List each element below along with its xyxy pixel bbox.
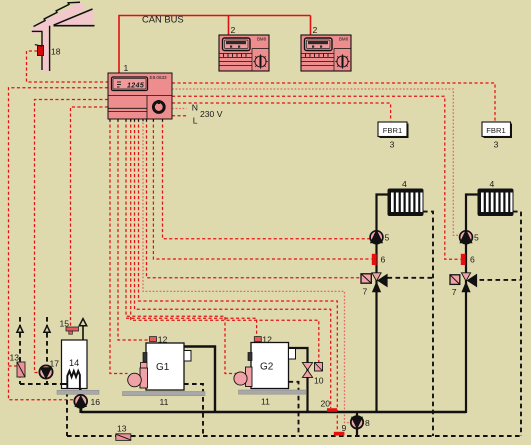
pump 16 [74, 395, 87, 408]
svg-text:7: 7 [363, 287, 368, 297]
controller U1 (E8 device) [108, 73, 172, 121]
wire controller to G2 sensor 12 [126, 318, 257, 336]
svg-text:5: 5 [385, 233, 390, 243]
arrow tank vent [79, 319, 86, 326]
wire tank to return main (dashed) [66, 392, 68, 436]
wire left circuit supply pipe [377, 195, 389, 413]
tank 14 [62, 340, 88, 390]
wire L stub 230V [172, 115, 189, 117]
wire right circuit supply pipe [466, 195, 478, 414]
sensor 6 left [372, 254, 377, 265]
valve 7 right (mixer) [450, 273, 477, 293]
wire stub to sensor 13 left [9, 365, 18, 367]
wire controller to sensor 20 [135, 119, 331, 408]
wire pump 16 pipe [79, 389, 81, 413]
wire controller to pump 5 right (fine dotted) [172, 89, 459, 235]
wire tank vent pipe [82, 325, 84, 340]
wire controller to G1 sensor 12 [118, 119, 149, 340]
wire controller to mixer valves 7 [147, 119, 361, 278]
house wall edges [42, 26, 50, 71]
wire controller to sensor 15 [71, 107, 109, 327]
svg-text:13: 13 [10, 353, 20, 363]
FBR1 box left [378, 122, 409, 138]
svg-text:FBR1: FBR1 [383, 126, 402, 135]
arrow DHW line 2 [44, 326, 50, 333]
wire G2 return (dashed) [289, 382, 299, 436]
svg-text:20: 20 [321, 399, 331, 409]
svg-text:4: 4 [490, 179, 495, 189]
valve 10 [302, 363, 322, 378]
pump 5 right [459, 229, 472, 243]
sensor 18 outdoor [38, 46, 44, 56]
sensor 13 bottom [116, 434, 131, 441]
room device 2 left (BM8) [219, 35, 269, 71]
wire controller to pump 5 left [163, 119, 370, 239]
svg-text:11: 11 [261, 396, 270, 406]
svg-text:17: 17 [50, 359, 60, 369]
wire controller to sensor 6 left [153, 119, 371, 259]
sensor 12 G1 [150, 337, 157, 342]
svg-text:1: 1 [124, 63, 129, 73]
svg-text:N: N [192, 103, 198, 113]
house eave wedge [56, 10, 95, 25]
svg-text:L: L [193, 116, 198, 126]
radiator 4 left [388, 189, 424, 217]
knob of controller [153, 102, 164, 113]
svg-text:18: 18 [51, 47, 61, 57]
svg-text:FBR1: FBR1 [486, 126, 505, 135]
pump 5 left [370, 229, 383, 243]
sensor 9 [334, 432, 345, 436]
wire controller to FBR1 right [172, 83, 495, 121]
svg-text:9: 9 [342, 423, 347, 433]
svg-text:6: 6 [470, 255, 475, 265]
burner of G2 [246, 367, 253, 387]
svg-text:10: 10 [314, 376, 324, 386]
house roof band [30, 2, 87, 34]
svg-text:11: 11 [160, 397, 169, 407]
CAN bus solid red line [119, 16, 311, 74]
wire controller to G1 burner [110, 119, 128, 374]
wire DHW cold water line (dashed) [20, 317, 62, 384]
svg-text:5: 5 [474, 233, 479, 243]
base of tank [57, 390, 99, 394]
wire controller to sensor 6 right [172, 96, 461, 259]
house eave underside left [32, 30, 43, 32]
wire controller to pump 8 (fine dotted) [143, 119, 351, 423]
boiler G1 [128, 343, 191, 390]
wire controller to FBR1 left [172, 103, 391, 121]
wire return main pipe (dashed) [67, 435, 521, 437]
svg-text:8: 8 [365, 418, 370, 428]
svg-text:14: 14 [69, 358, 79, 368]
house wall [42, 26, 50, 71]
wire valve 7 left return branch (dashed) [388, 277, 434, 279]
svg-text:15: 15 [60, 319, 70, 329]
sensor 15 [66, 327, 79, 334]
wire supply main pipe [81, 406, 466, 412]
sensor 6 right [461, 254, 466, 265]
wire controller to pump 16 (left loop) [9, 88, 109, 400]
wire N stub 230V [172, 108, 187, 110]
svg-text:13: 13 [117, 424, 127, 434]
dial of device 2 right [335, 54, 350, 69]
svg-text:CAN BUS: CAN BUS [142, 14, 184, 25]
wire radiator left return (dashed) [423, 212, 433, 436]
svg-text:12: 12 [262, 335, 272, 345]
wire controller to G2 burner [126, 119, 236, 374]
wire radiator right return (dashed) [513, 212, 521, 436]
wire controller to pump 17 [35, 100, 109, 373]
svg-text:G2: G2 [260, 362, 274, 373]
wire controller to valve 10 actuator [131, 119, 319, 362]
radiator 4 right [478, 189, 514, 217]
base 11 G1 [123, 392, 206, 396]
svg-text:BM8: BM8 [257, 37, 267, 42]
pump 8 [351, 416, 363, 429]
wire outdoor sensor 18 to controller [27, 51, 109, 82]
svg-text:BM8: BM8 [339, 37, 349, 42]
pump 17 [39, 365, 52, 379]
svg-text:3: 3 [494, 140, 499, 150]
svg-text:7: 7 [452, 287, 457, 297]
wire G1 boiler supply pipe [184, 347, 215, 413]
svg-text:16: 16 [91, 397, 101, 407]
boiler G2 [234, 343, 296, 389]
valve 7 left (mixer) [361, 273, 388, 293]
sensor 20 [327, 408, 337, 412]
svg-text:230 V: 230 V [200, 109, 223, 119]
house roof bottom edge [54, 9, 93, 25]
wire controller to sensor 9 [139, 119, 338, 432]
svg-text:E8.0633: E8.0633 [150, 75, 168, 80]
svg-text:2: 2 [231, 25, 236, 35]
svg-text:3: 3 [390, 140, 395, 150]
svg-text:12: 12 [158, 335, 168, 345]
wire G2 boiler supply pipe [289, 348, 308, 412]
base 11 G2 [239, 390, 306, 394]
house eave line [54, 25, 95, 27]
svg-text:4: 4 [402, 179, 407, 189]
wire G1 return (dashed) [184, 384, 203, 436]
svg-text:6: 6 [381, 255, 386, 265]
wire valve 7 right return branch (dashed) [472, 279, 522, 281]
house roof top edge [34, 2, 81, 26]
svg-text:2: 2 [313, 25, 318, 35]
svg-text:1245: 1245 [127, 83, 144, 90]
sensor 12 G2 [254, 337, 261, 342]
wire pump 8 bypass pipe [356, 412, 358, 436]
room device 2 right (BM8) [301, 35, 351, 71]
sensor 13 left [17, 362, 25, 377]
dial of device 2 left [253, 54, 268, 69]
arrow DHW line 1 [17, 326, 23, 333]
coil of tank 14 [62, 371, 80, 390]
FBR1 box right [482, 122, 512, 138]
svg-text:G1: G1 [156, 362, 170, 373]
burner of G1 [140, 368, 148, 388]
